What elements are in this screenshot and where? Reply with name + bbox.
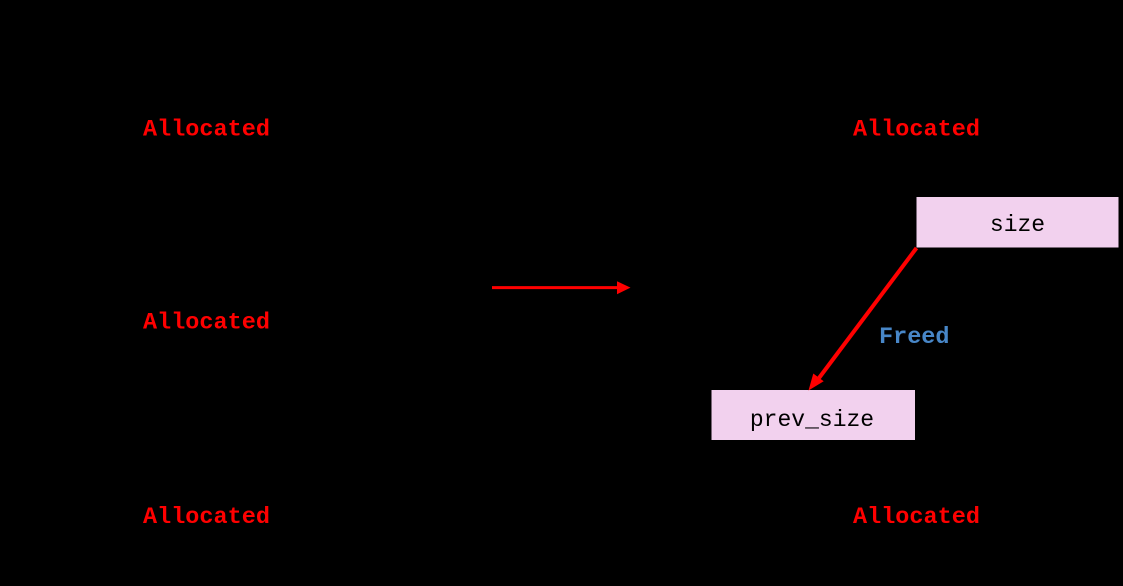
svg-text:Freed: Freed <box>879 324 950 351</box>
svg-text:Allocated: Allocated <box>853 504 980 531</box>
svg-text:prev_size: prev_size <box>750 407 874 433</box>
box prev_size <box>712 390 916 440</box>
arrow horizontal <box>492 281 631 294</box>
arrow diagonal size to prev_size <box>809 248 917 391</box>
svg-text:size: size <box>990 212 1045 238</box>
svg-text:Allocated: Allocated <box>143 504 270 531</box>
svg-text:Allocated: Allocated <box>143 117 270 144</box>
svg-text:Allocated: Allocated <box>853 117 980 144</box>
svg-text:Allocated: Allocated <box>143 310 270 337</box>
box size <box>917 197 1119 248</box>
